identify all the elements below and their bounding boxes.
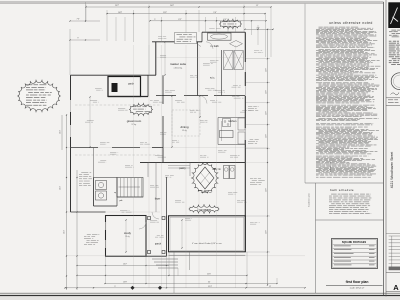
pdr fixture 2 [96,191,107,200]
svg-text:m. bath: m. bath [210,45,219,48]
svg-text:14′8″: 14′8″ [118,12,123,14]
svg-text:8′2″: 8′2″ [178,19,181,21]
closet bifold X right [234,51,243,70]
garage apron line [169,254,246,256]
staircase [117,178,143,198]
kitchen right cabinets [238,118,245,130]
bottom dim line upper-left [77,265,169,267]
svg-text:10′4″: 10′4″ [60,186,62,190]
wall: great room bottom [71,147,99,149]
svg-text:3 car garage: 3 car garage [197,208,212,211]
logo box [388,2,400,28]
bottom diamonds [130,286,134,290]
wall: m.bath alcove stub [201,32,203,42]
front porch bottom [146,255,167,257]
left wall window breaks [70,100,72,112]
right small texts [248,105,252,107]
top dim ticks [85,6,86,7]
top-left setback dims [85,2,87,22]
svg-text:scale: 1/4″=1′-0″: scale: 1/4″=1′-0″ [350,287,365,289]
front steps [152,258,178,260]
top extension lines [85,5,87,22]
svg-text:dining: dining [180,125,188,129]
wall: pantry/utility top [140,162,245,164]
cloud top right shower note [220,19,242,30]
svg-text:foundation plan: foundation plan [308,193,311,207]
cloud above great room [130,103,153,116]
interior dim line great room [89,97,91,147]
interior dim line study [125,220,127,252]
pdr fixture 1 [96,181,107,190]
dining ceiling [172,110,200,136]
top sheet border [0,1,384,3]
utility washer/dryer [224,166,230,179]
wall: left exterior [70,75,72,212]
furnace diamond [196,167,214,189]
svg-text:unless otherwise noted: unless otherwise noted [329,21,373,25]
extra top texts [158,36,162,38]
svg-text:up: up [114,192,116,194]
svg-text:10′4″: 10′4″ [60,130,62,134]
pantry shelves [168,165,190,167]
svg-text:13′8″: 13′8″ [123,282,127,284]
interior dim line hall [199,96,201,117]
garage walls [169,216,246,252]
kitchen island [220,131,234,138]
right extension stubs [246,58,270,60]
svg-text:4121 Woodhaven Street: 4121 Woodhaven Street [390,152,394,189]
svg-text:12′6″: 12′6″ [265,188,267,192]
top dimension lines [86,6,271,8]
bottom dimension lines [77,274,247,276]
svg-text:10′ clg.: 10′ clg. [182,130,188,132]
svg-text:kitchen: kitchen [229,120,238,123]
legal text block [389,40,392,43]
notes column divider [304,4,306,183]
driveway edge right [189,252,191,270]
wall: master suite bottom [156,95,176,97]
svg-text:first floor plan: first floor plan [346,280,369,284]
slope ceiling note box [175,33,197,44]
svg-text:porch: porch [128,82,134,85]
left small note block 2 [81,171,88,173]
seal circle [391,73,400,90]
wall: master/wic divider [197,42,199,96]
notes body [319,26,323,29]
right dimension line [267,29,269,285]
svg-text:29′2″: 29′2″ [115,5,120,7]
title strip border [385,0,387,300]
rev table top line [386,233,400,235]
svg-text:w.i.c.: w.i.c. [210,78,215,80]
porch posts [148,217,151,220]
wall: foyer left step [71,211,106,213]
svg-text:12′ clg.: 12′ clg. [132,124,138,126]
porch walls (dark) [108,77,141,97]
wall: great room top [71,74,157,76]
svg-text:12′6″: 12′6″ [265,68,267,72]
svg-text:7′6″: 7′6″ [77,19,80,21]
construction through lines horizontal [156,57,246,59]
door arc mbath [206,42,213,49]
svg-text:pantry: pantry [179,167,186,170]
wall: porch right [147,75,149,96]
svg-text:24′6″: 24′6″ [170,5,175,7]
closet bifold X left [224,51,234,70]
shower diamond [230,41,243,48]
svg-text:coffered clg.: coffered clg. [174,67,183,69]
left small note block [87,233,91,235]
square footage table [332,239,378,269]
great room ceiling beams [75,104,160,106]
study windows [104,222,106,230]
svg-text:12′6″: 12′6″ [265,230,267,234]
cloud center furnace [191,163,219,194]
svg-text:9′6″: 9′6″ [213,12,216,14]
notes column horizontal dividers [305,182,384,184]
interior dim line dining [171,96,173,147]
wall: master suite left [155,42,157,75]
scattered small dim texts [160,54,166,56]
hall lines [147,163,149,178]
svg-text:pdr: pdr [119,199,122,202]
right wall window breaks [244,62,246,72]
bath schedule body [331,193,337,196]
cloud text [26,84,32,87]
svg-text:SQUARE FOOTAGES: SQUARE FOOTAGES [342,241,367,244]
construction through lines vertical [133,45,135,288]
study walls [106,216,147,257]
wall: great room right [162,75,164,104]
svg-text:10′4″: 10′4″ [64,230,66,234]
svg-text:12′6″: 12′6″ [265,111,267,115]
svg-text:A: A [393,283,399,292]
signature [391,93,400,95]
lower right box left border [315,183,317,293]
title strip dividers [386,97,400,99]
cloud 3 car garage [189,204,219,214]
svg-text:12′6″: 12′6″ [265,90,267,94]
right sheet border [383,2,385,296]
svg-text:brand/model: brand/model [330,161,332,172]
wall: m.bath top [202,31,245,33]
svg-text:11′4″: 11′4″ [163,12,167,14]
wall: below porch [108,96,148,98]
powder room walls [93,178,95,207]
scan bottom strip [0,297,400,300]
kitchen counters [218,117,245,119]
svg-text:4″ conc. slab w/ #3 rebar @ 24: 4″ conc. slab w/ #3 rebar @ 24″ o.c.e.w. [192,242,222,245]
svg-text:study: study [124,231,131,235]
svg-text:utility rm: utility rm [212,168,221,171]
interior dim line garage [181,220,183,248]
leader line [197,44,202,47]
door arc study [139,222,146,229]
svg-text:master suite: master suite [170,62,187,66]
door arc foyer [152,212,159,219]
wall: wic closet divider [221,50,223,96]
door arc master [199,96,207,104]
firm address block [391,29,396,32]
svg-text:foyer: foyer [155,198,161,201]
driveway edge left [173,252,175,293]
wall: master suite top [152,41,202,43]
revision cloud left (large) [18,80,61,113]
fireplace [112,83,118,92]
svg-text:12′6″: 12′6″ [265,134,267,138]
svg-text:52′4″: 52′4″ [208,286,212,288]
svg-text:25′6″: 25′6″ [207,273,211,275]
bottom extension lines [105,257,107,285]
bottom sheet border [0,292,400,294]
svg-text:13′2″: 13′2″ [123,264,127,266]
svg-text:bath schedule: bath schedule [330,188,354,192]
revision table [389,235,400,237]
svg-text:porch: porch [155,243,162,246]
left dimension lines [66,115,68,290]
bathtub [208,33,232,40]
svg-text:4′6″: 4′6″ [256,28,259,30]
wall: house right exterior [244,32,246,252]
front porch right wall [166,216,168,257]
svg-text:great room: great room [127,119,142,123]
wall: dining left stub [162,148,164,163]
interior dim line master [164,42,166,75]
